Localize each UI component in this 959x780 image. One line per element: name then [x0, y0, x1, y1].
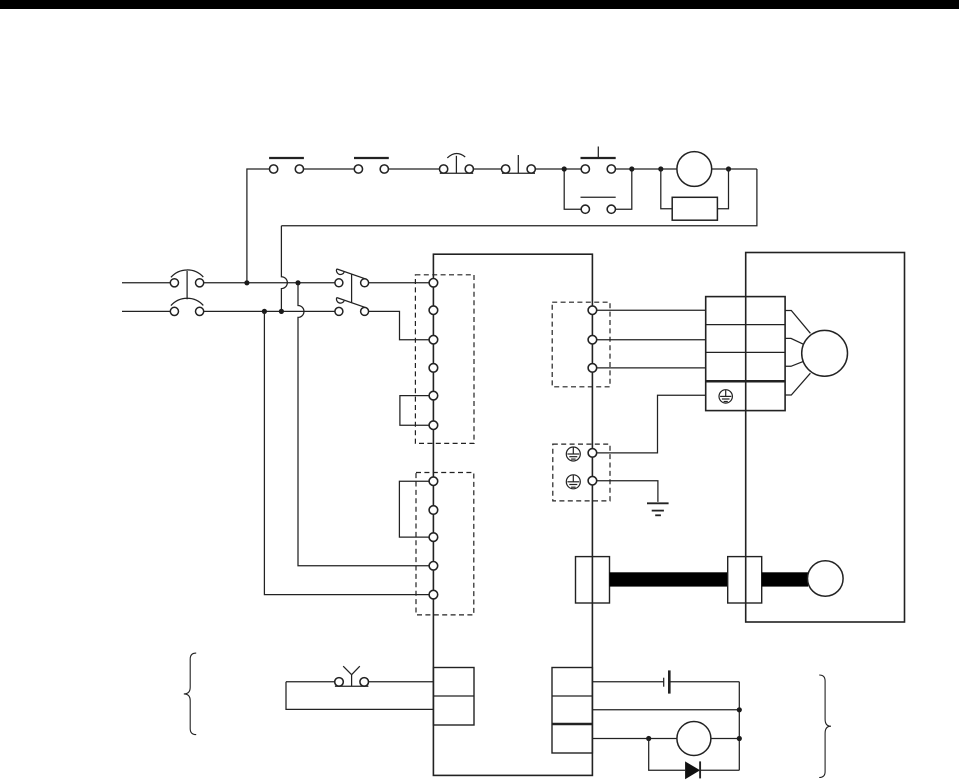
plug connector mechanical link: [186, 271, 188, 299]
wire motor lead 1: [785, 311, 810, 334]
wire to resistor left: [661, 169, 672, 209]
wire rung segment between PB1 and PB2: [474, 168, 502, 170]
switch S1 pole 1 (knife switch): [335, 269, 369, 287]
node junction L2 control return tap: [279, 309, 284, 314]
wire rung segment between contact 2 and pushbutton PB1: [389, 168, 440, 170]
shaft coupling left: [576, 557, 610, 603]
pushbutton PB2 (make contact): [501, 155, 535, 173]
terminal block right on control unit: [552, 668, 592, 754]
terminal TB3-3: [588, 364, 597, 373]
wire from resistor right: [717, 169, 728, 209]
wire right drop vertical: [738, 682, 740, 771]
jumper link terminals 1-3 of TB2: [399, 481, 429, 537]
protective earth symbol PE2: [566, 475, 580, 489]
jumper link terminals 5-6 of TB1: [400, 396, 429, 426]
wire motor phase W from TB3-3: [597, 367, 706, 369]
wire drop from L1 with hop over L2 down to terminal row 4 of lower box: [298, 283, 429, 566]
wire protective earth TB4-1 to motor block: [597, 395, 706, 453]
node junction left of coil: [658, 166, 663, 171]
switch S1 pole 2 (knife switch): [335, 297, 369, 315]
protective earth symbol PE3 in motor block: [719, 390, 732, 403]
motor M1: [802, 330, 848, 376]
control unit box U1: [433, 254, 592, 775]
terminal TB3-2: [588, 335, 597, 344]
dashed boundary box terminal strip TB4: [553, 444, 610, 501]
terminal TB4-2: [588, 476, 597, 485]
wire pump row left: [592, 738, 677, 740]
drive shaft: [610, 572, 728, 586]
switch S1 mechanical link: [351, 274, 353, 303]
self-hold contact block left branch wire: [564, 169, 581, 209]
float switch cable loop left and bottom wire: [286, 682, 433, 710]
wire earth TB4-2 to ground electrode: [597, 481, 658, 502]
terminal TB1-3: [429, 335, 438, 344]
wire rung segment between contact 1 and contact 2: [304, 168, 355, 170]
plug connector pole 1: [170, 270, 203, 287]
contact top of self-hold block (with actuator stem): [581, 147, 616, 174]
wire return vertical with hop over L1 down to L2: [281, 226, 287, 312]
node junction right of self-hold block: [629, 166, 634, 171]
float switch cable loop top wire: [286, 681, 335, 683]
contact bottom of self-hold block: [581, 197, 616, 213]
terminal TB2-4: [429, 562, 438, 571]
wire rung segment between PB2 and self-hold block: [535, 168, 581, 170]
float switch FS1 contact: [335, 666, 369, 686]
wire pump row right: [711, 738, 739, 740]
node junction middle row: [737, 707, 742, 712]
drive shaft stub: [762, 572, 808, 586]
power line L2 left segment: [122, 310, 171, 312]
terminal TB2-2: [429, 506, 438, 515]
power line L1 right segment to terminal 1: [369, 282, 430, 284]
battery BT1: [664, 670, 670, 693]
wire motor lead 4: [785, 373, 810, 395]
wire drop from L2 down to terminal row 5 of lower box: [264, 311, 429, 594]
wire battery to right drop: [669, 681, 739, 683]
wire diode branch: [649, 739, 685, 771]
terminal TB2-3: [429, 533, 438, 542]
protective earth symbol PE1: [566, 447, 580, 461]
left annotation brace: [184, 653, 196, 735]
terminal TB4-1: [588, 449, 597, 458]
motor terminal block: [706, 297, 785, 411]
terminal TB1-1: [429, 279, 438, 288]
wire motor phase V from TB3-2: [597, 339, 706, 341]
wire diode to right drop: [700, 769, 739, 771]
right annotation brace: [819, 675, 831, 778]
wire rung segment between self-hold block and coil: [616, 168, 677, 170]
shaft coupling right: [728, 557, 762, 603]
wire motor lead 2: [785, 338, 804, 344]
node junction right of coil: [726, 166, 731, 171]
node junction L1 drop tap: [295, 280, 300, 285]
terminal block left on control unit: [433, 668, 474, 726]
resistor R (parallel with coil): [672, 197, 717, 220]
coil MC (relay coil circle): [677, 152, 712, 187]
wire battery row: [592, 681, 663, 683]
dashed boundary box terminal strip TB1: [415, 275, 474, 444]
wire motor lead 3: [785, 361, 803, 366]
dashed boundary box terminal strip TB2: [416, 473, 474, 615]
wire control feed from L1 up to control rung: [247, 169, 270, 283]
terminal TB1-6: [429, 421, 438, 430]
node junction pump left: [646, 736, 651, 741]
power line L2 middle segment: [203, 310, 335, 312]
pushbutton PB1 (make contact with mushroom head): [439, 154, 473, 174]
wire control return drop and run back left: [281, 169, 757, 226]
wire rung segment coil to right drop: [712, 168, 757, 170]
page header bar: [0, 0, 959, 9]
machine enclosure box: [746, 253, 905, 623]
ground symbol: [647, 503, 669, 515]
shaft end ball: [808, 561, 844, 597]
wire middle row: [592, 709, 739, 711]
dashed boundary box terminal strip TB3: [552, 302, 610, 387]
terminal TB3-1: [588, 306, 597, 315]
diode D1: [685, 761, 700, 779]
terminal TB1-5: [429, 391, 438, 400]
terminal TB1-2: [429, 306, 438, 315]
terminal TB2-1: [429, 477, 438, 486]
terminal TB1-4: [429, 364, 438, 373]
power line L1 left segment: [122, 282, 171, 284]
wire motor phase U from TB3-1: [597, 309, 706, 311]
plug connector pole 2: [170, 298, 203, 315]
node junction L1 control feed tap: [244, 280, 249, 285]
power line L1 middle segment: [203, 282, 335, 284]
NC contact 1 (b-contact): [269, 158, 304, 173]
terminal TB2-5: [429, 590, 438, 599]
node junction left of self-hold block: [562, 166, 567, 171]
power line L2 right segment with jog down to terminal 3: [369, 311, 430, 339]
node junction pump right: [737, 736, 742, 741]
self-hold contact block right branch wire: [616, 169, 632, 209]
node junction L2 drop tap: [262, 309, 267, 314]
pump motor M2: [677, 722, 711, 756]
NC contact 2 (b-contact): [354, 158, 389, 173]
